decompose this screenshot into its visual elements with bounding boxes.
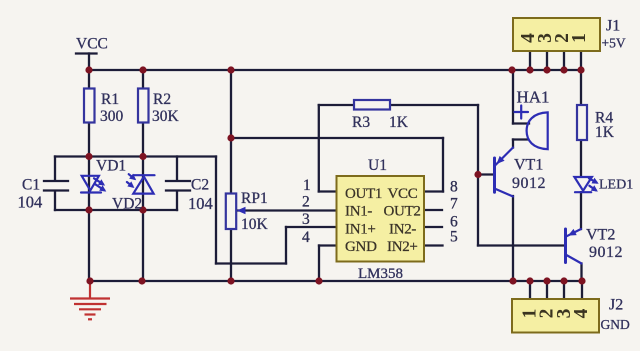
svg-text:VT1: VT1	[514, 157, 543, 174]
svg-text:OUT2: OUT2	[384, 204, 421, 220]
svg-text:104: 104	[188, 194, 213, 213]
svg-text:J2: J2	[609, 297, 623, 314]
svg-text:IN2+: IN2+	[387, 239, 418, 255]
svg-text:9012: 9012	[512, 175, 546, 192]
svg-text:GND: GND	[601, 317, 630, 332]
svg-text:RP1: RP1	[241, 190, 268, 207]
svg-text:J1: J1	[606, 18, 620, 35]
svg-text:IN2-: IN2-	[389, 222, 416, 238]
svg-text:7: 7	[450, 196, 458, 213]
svg-text:1K: 1K	[389, 114, 409, 131]
svg-text:300: 300	[100, 108, 124, 125]
svg-text:5: 5	[450, 229, 458, 246]
svg-text:10K: 10K	[241, 216, 269, 233]
svg-text:VCC: VCC	[388, 186, 418, 202]
svg-text:104: 104	[18, 193, 43, 212]
svg-text:1: 1	[303, 177, 311, 194]
svg-text:HA1: HA1	[517, 88, 550, 107]
svg-text:4: 4	[571, 308, 592, 318]
svg-text:3: 3	[302, 211, 310, 228]
svg-text:LM358: LM358	[358, 266, 403, 282]
svg-text:R3: R3	[352, 114, 370, 131]
svg-text:OUT1: OUT1	[345, 186, 382, 202]
svg-text:8: 8	[450, 179, 458, 196]
svg-text:R1: R1	[101, 91, 119, 108]
svg-text:1: 1	[569, 33, 590, 43]
svg-text:IN1+: IN1+	[345, 222, 376, 238]
svg-text:9012: 9012	[589, 244, 623, 261]
svg-text:R2: R2	[153, 91, 171, 108]
svg-text:1K: 1K	[595, 124, 615, 141]
svg-text:LED1: LED1	[599, 178, 633, 193]
svg-text:VD1: VD1	[96, 158, 126, 175]
svg-text:4: 4	[302, 229, 310, 246]
svg-text:VCC: VCC	[76, 36, 108, 53]
svg-text:+5V: +5V	[602, 36, 626, 51]
svg-text:VT2: VT2	[586, 227, 615, 244]
svg-text:2: 2	[302, 194, 310, 211]
svg-text:GND: GND	[345, 239, 377, 255]
svg-text:C2: C2	[191, 177, 209, 194]
svg-text:VD2: VD2	[112, 196, 142, 213]
svg-text:IN1-: IN1-	[345, 204, 372, 220]
svg-text:C1: C1	[22, 177, 40, 194]
svg-text:30K: 30K	[152, 108, 180, 125]
svg-text:U1: U1	[368, 157, 387, 174]
